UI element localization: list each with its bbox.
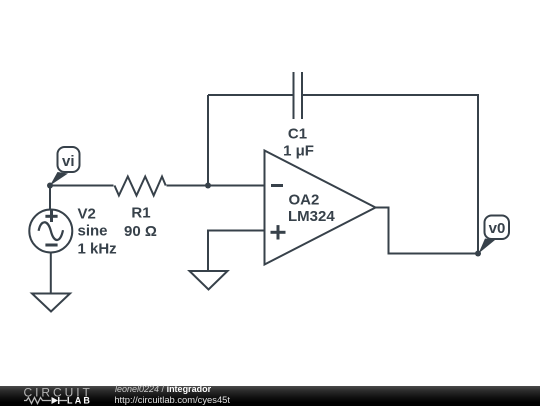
- wire plus input to ground: [208, 231, 265, 272]
- node label vi box: [58, 147, 80, 172]
- svg-text:sine: sine: [78, 223, 108, 240]
- source minus symbol: [45, 244, 57, 247]
- wire feedback left vertical: [207, 95, 209, 186]
- svg-text:C1: C1: [288, 126, 307, 143]
- svg-text:90 Ω: 90 Ω: [124, 223, 157, 240]
- footer meta text: [115, 385, 230, 404]
- node dot feedback junction: [205, 183, 211, 189]
- op-amp OA2 triangle: [265, 151, 376, 265]
- node dot vi: [47, 183, 53, 189]
- capacitor C1 plate left: [293, 72, 295, 119]
- op-amp plus symbol: [271, 231, 286, 234]
- svg-text:LM324: LM324: [288, 208, 335, 225]
- svg-text:1 kHz: 1 kHz: [78, 241, 117, 258]
- svg-text:v0: v0: [489, 220, 506, 237]
- wire resistor to op-amp minus input: [167, 185, 265, 187]
- node label v0 pointer: [479, 239, 496, 254]
- node dot output junction: [475, 251, 481, 257]
- svg-text:V2: V2: [78, 206, 96, 223]
- wire vi node down to source V2: [49, 186, 51, 210]
- source plus symbol: [45, 215, 57, 218]
- wire op-amp output: [376, 208, 479, 254]
- resistor R1: [115, 177, 166, 196]
- ground under source: [32, 294, 70, 312]
- node label v0 box: [485, 216, 510, 240]
- svg-text:1 μF: 1 μF: [283, 143, 314, 160]
- svg-text:LAB: LAB: [67, 395, 92, 405]
- wire vi node to resistor: [50, 185, 114, 187]
- source sine wave: [39, 222, 63, 240]
- node label vi pointer: [50, 172, 68, 186]
- wire feedback top right and right vertical: [302, 95, 478, 254]
- ground under op-amp plus input: [190, 271, 228, 290]
- voltage source V2 circle: [29, 210, 72, 253]
- op-amp minus symbol: [271, 184, 283, 187]
- svg-text:R1: R1: [131, 205, 150, 222]
- wire feedback top left: [208, 94, 294, 96]
- circuitlab logo: [0, 386, 110, 406]
- svg-text:vi: vi: [62, 153, 75, 170]
- svg-text:OA2: OA2: [289, 192, 320, 209]
- capacitor C1 plate right: [301, 72, 303, 119]
- footer bar: [0, 386, 540, 406]
- wire source to ground: [50, 253, 52, 294]
